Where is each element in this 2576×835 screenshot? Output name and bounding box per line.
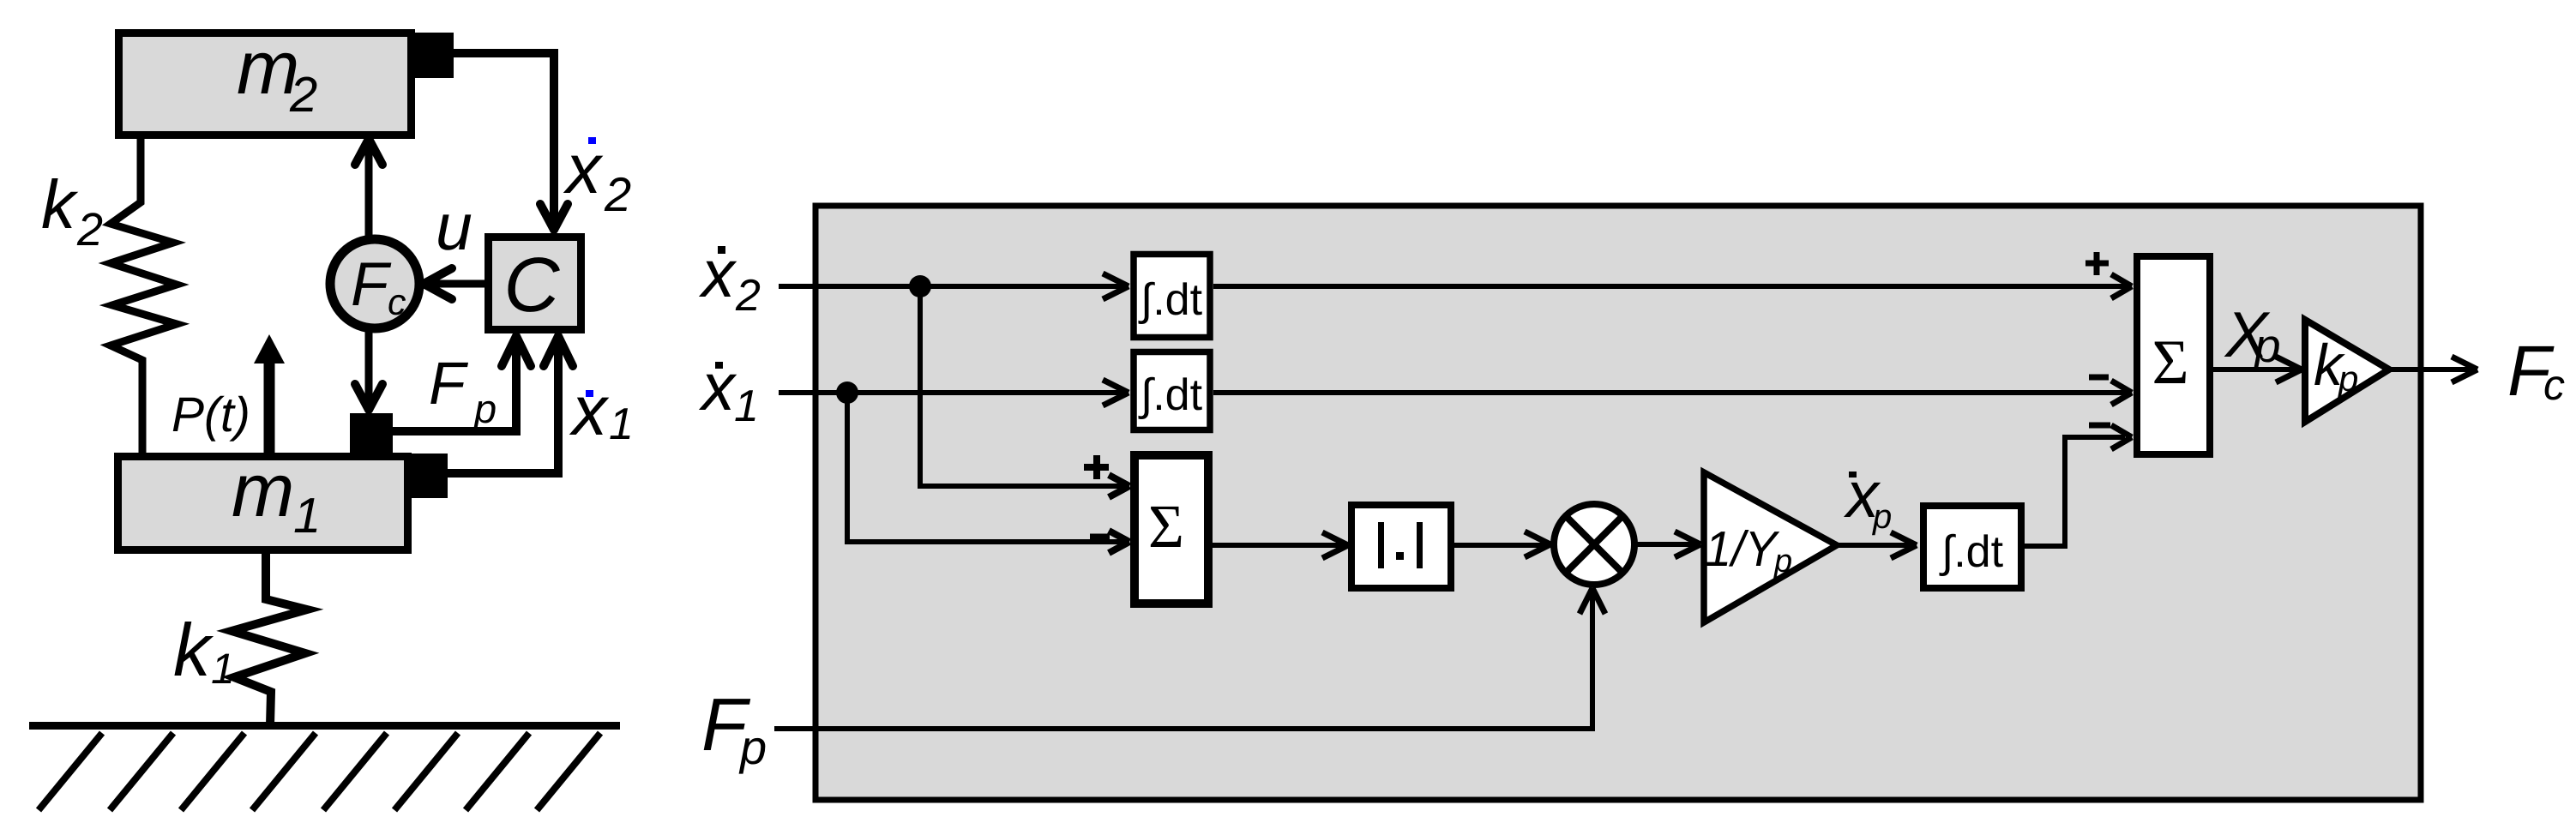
ground hatch 4 <box>252 733 316 810</box>
svg-text:C: C <box>504 243 561 328</box>
force arrow Fc upper (m2 to Fc circle) <box>365 141 373 242</box>
svg-text:∫.dt: ∫.dt <box>1138 275 1203 325</box>
svg-text:1/Y: 1/Y <box>1705 521 1780 577</box>
integrator 2 <box>1134 352 1210 430</box>
minus sign right summer <box>2089 375 2109 381</box>
svg-text:x: x <box>563 130 604 208</box>
summer sigma right <box>2137 256 2210 454</box>
svg-text:∫.dt: ∫.dt <box>1138 370 1203 420</box>
ground hatch 7 <box>466 733 529 810</box>
multiplier circle <box>1554 504 1634 585</box>
svg-text:1: 1 <box>734 381 759 431</box>
wire x2dot input <box>779 284 1127 289</box>
ground hatch 6 <box>394 733 458 810</box>
ground hatch 8 <box>537 733 600 810</box>
wire abs to multiplier <box>1454 543 1547 548</box>
wire summer to gain kp <box>2213 367 2298 372</box>
controller C box <box>489 237 581 330</box>
svg-text:m: m <box>232 448 294 532</box>
svg-text:2: 2 <box>735 271 761 321</box>
svg-text:1: 1 <box>609 399 634 449</box>
svg-text:p: p <box>2253 319 2281 372</box>
svg-text:k: k <box>173 609 214 692</box>
output wire Fc <box>2389 367 2474 372</box>
ground hatch 3 <box>181 733 244 810</box>
wire u from C to Fc <box>425 280 485 288</box>
plus sign right summer <box>2085 261 2109 267</box>
junction block on m1 top <box>350 413 393 454</box>
svg-text:2: 2 <box>289 67 317 123</box>
svg-text:Σ: Σ <box>2152 327 2188 398</box>
wire junction x1dot to summer minus <box>847 393 1126 542</box>
wire integrator 3 to summer right <box>2025 437 2125 546</box>
svg-text:p: p <box>1773 544 1792 580</box>
ground line <box>29 722 620 730</box>
svg-text:1: 1 <box>293 488 321 544</box>
svg-text:2: 2 <box>76 204 103 255</box>
junction dot on x2dot <box>909 275 931 297</box>
svg-text:p: p <box>738 720 767 774</box>
svg-text:F: F <box>429 350 469 417</box>
wire gain to integrator 3 <box>1837 543 1913 548</box>
wire x1dot input <box>779 390 1127 395</box>
svg-text:F: F <box>351 250 392 319</box>
wire x1dot from m1 to C <box>446 338 558 473</box>
integrator 1 output wire to sum <box>1213 284 2128 289</box>
mass m2 <box>119 33 412 135</box>
svg-text:P(t): P(t) <box>172 387 250 442</box>
svg-text:c: c <box>388 282 406 323</box>
connector block on m1 right <box>410 454 448 498</box>
wire junction x2dot to summer plus <box>920 286 1126 486</box>
svg-text:2: 2 <box>604 167 631 221</box>
wire Fp from m1 junction to C <box>391 338 516 431</box>
wire m2 to controller C <box>450 53 554 225</box>
force arrow Fc lower (Fc circle to m1) <box>365 326 373 409</box>
svg-text:k: k <box>41 166 79 243</box>
gain kp triangle <box>2305 320 2389 422</box>
svg-text:1: 1 <box>211 645 235 693</box>
ground hatch 2 <box>110 733 173 810</box>
svg-text:x: x <box>569 372 610 450</box>
svg-text:x: x <box>698 349 737 424</box>
svg-text:∫.dt: ∫.dt <box>1939 527 2004 577</box>
integrator 1 <box>1134 255 1210 338</box>
integrator 2 output wire to sum <box>1213 390 2128 395</box>
svg-text:Σ: Σ <box>1148 492 1184 561</box>
block diagram enclosure <box>816 206 2421 800</box>
absolute value block <box>1351 505 1451 588</box>
connector block on m2 <box>414 33 454 78</box>
minus sign third input <box>2089 423 2110 429</box>
ground hatch 5 <box>323 733 387 810</box>
svg-text:c: c <box>2543 361 2565 409</box>
force arrow P(t) <box>264 360 275 453</box>
actuator Fc circle <box>330 239 419 328</box>
mass m1 <box>118 457 408 550</box>
svg-text:p: p <box>2337 358 2358 399</box>
summer sigma left <box>1135 455 1208 604</box>
junction dot on x1dot <box>836 381 858 404</box>
ground hatch 1 <box>39 733 102 810</box>
wire multiplier to gain 1/Yp <box>1634 542 1697 547</box>
plus sign summer <box>1084 464 1109 471</box>
integrator 3 <box>1923 506 2021 588</box>
svg-text:p: p <box>472 386 497 431</box>
svg-text:p: p <box>1872 498 1892 536</box>
gain 1/Yp triangle <box>1704 472 1837 622</box>
summer output wire <box>1213 543 1345 548</box>
spring k1 <box>232 552 307 725</box>
svg-text:u: u <box>436 190 472 264</box>
minus sign summer <box>1090 534 1110 540</box>
wire Fp input to multiplier <box>774 593 1592 729</box>
spring k2 <box>111 137 177 454</box>
